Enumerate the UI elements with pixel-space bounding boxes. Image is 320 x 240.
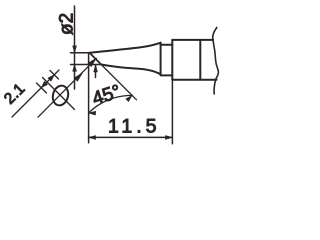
break wavy line <box>213 28 219 95</box>
node: diameter top arrow <box>73 46 77 53</box>
wire: diameter dimension line vertical <box>74 6 76 89</box>
2.1 arrow lower <box>41 81 47 87</box>
2.1 arrow upper <box>48 75 54 81</box>
centerline second arrow near ellipse <box>74 73 82 81</box>
arc top-right arrow <box>126 95 132 101</box>
neck top line <box>161 44 173 46</box>
tip bottom profile curve <box>101 65 160 75</box>
sleeve divider vertical <box>199 40 201 80</box>
11.5 left arrow <box>89 136 96 140</box>
wire: short vertical with up arrow below bevel bottom <box>95 65 97 77</box>
11.5 dimension line <box>89 136 173 138</box>
flare end vertical edge <box>160 43 162 75</box>
ellipse face view <box>51 84 71 107</box>
2.1 extension tick upper <box>50 71 59 80</box>
11.5 right extension line <box>171 81 173 144</box>
svg-text:2.1: 2.1 <box>1 80 28 107</box>
sleeve left edge vertical <box>171 40 173 80</box>
face projection centerline <box>38 58 96 117</box>
arc bottom-left arrow <box>89 111 96 115</box>
bevel reference line to angle <box>101 64 136 99</box>
ellipse cross centerline <box>43 78 75 110</box>
svg-text:45°: 45° <box>90 81 124 110</box>
11.5 left extension line <box>88 54 90 143</box>
45 degree angle arc <box>89 95 133 113</box>
centerline arrow at face <box>88 58 96 66</box>
wire: bottom extension line <box>71 64 102 66</box>
2.1 dimension line <box>12 70 59 117</box>
tip top profile curve <box>90 43 161 53</box>
sleeve top line <box>172 39 213 41</box>
bevel face edge thick <box>90 53 102 65</box>
neck bottom line <box>161 74 173 76</box>
2.1 extension tick lower <box>37 83 47 93</box>
node: diameter bottom arrow <box>73 64 77 71</box>
11.5 right arrow <box>165 136 172 140</box>
svg-text:11.5: 11.5 <box>108 116 161 138</box>
wire: top extension line <box>71 52 90 54</box>
svg-text:ø2: ø2 <box>57 13 78 35</box>
sleeve bottom line <box>172 79 216 81</box>
